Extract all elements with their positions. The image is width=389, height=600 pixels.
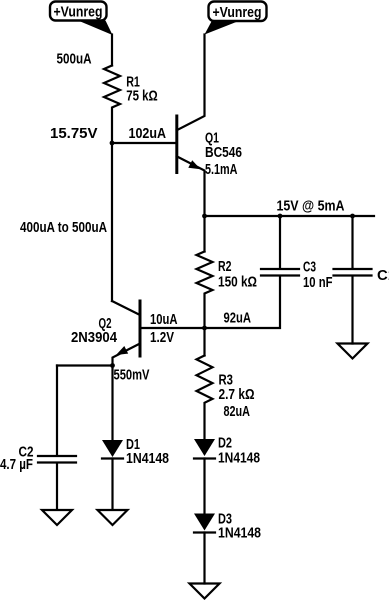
svg-text:2N3904: 2N3904 [71,330,117,346]
svg-text:+Vunreg: +Vunreg [213,5,262,21]
svg-text:BC546: BC546 [205,145,242,161]
svg-text:C1: C1 [377,268,389,284]
svg-text:1N4148: 1N4148 [218,450,260,466]
svg-text:1N4148: 1N4148 [218,525,261,541]
svg-text:400uA to 500uA: 400uA to 500uA [20,220,107,236]
svg-text:5.1mA: 5.1mA [205,162,238,178]
svg-text:102uA: 102uA [129,126,167,142]
svg-text:10uA: 10uA [150,312,178,328]
svg-text:+Vunreg: +Vunreg [54,5,103,21]
svg-text:10 nF: 10 nF [303,275,333,291]
svg-text:2.7 kΩ: 2.7 kΩ [219,387,255,403]
svg-text:1.2V: 1.2V [150,330,174,346]
svg-text:1N4148: 1N4148 [126,451,169,467]
svg-text:15V @ 5mA: 15V @ 5mA [277,199,345,215]
svg-text:75 kΩ: 75 kΩ [126,88,158,104]
svg-text:82uA: 82uA [224,404,251,420]
svg-text:4.7 µF: 4.7 µF [0,457,33,473]
svg-text:500uA: 500uA [57,52,92,68]
svg-text:92uA: 92uA [224,311,252,327]
svg-text:550mV: 550mV [114,368,150,384]
svg-text:15.75V: 15.75V [50,126,98,142]
svg-text:R2: R2 [218,259,232,275]
svg-text:D2: D2 [218,436,232,452]
svg-text:150 kΩ: 150 kΩ [218,275,257,291]
svg-text:C3: C3 [303,260,316,276]
